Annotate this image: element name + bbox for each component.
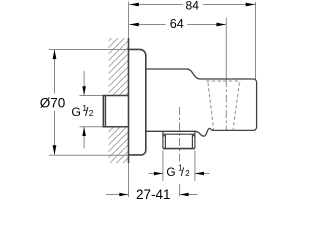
svg-text:2: 2: [185, 169, 190, 178]
extension line wall face (84/64 left, 27-41 left): [128, 2, 130, 198]
svg-text:G: G: [71, 105, 81, 119]
leader line G12 left top: [83, 71, 85, 96]
centerline holder axis: [225, 79, 227, 130]
extension line stub top: [80, 95, 104, 97]
svg-text:27-41: 27-41: [136, 187, 171, 200]
extension line dia70 top: [49, 49, 129, 51]
dimension tail G12 bottom left: [149, 173, 163, 175]
extension line 84 right: [255, 2, 257, 80]
dimension line dia70: [54, 50, 56, 94]
arrowhead G12 bottom right-pointing: [154, 172, 163, 176]
inlet stub clearing in wall: [102, 96, 129, 127]
arrowhead 27-41 right-pointing: [119, 193, 128, 197]
svg-text:G: G: [166, 165, 175, 179]
wall section hatch: [109, 38, 129, 163]
extension line stub bottom: [80, 126, 104, 128]
hidden cone right edge: [233, 83, 240, 130]
arrowhead dia70 down: [53, 145, 57, 155]
dimension line 64: [129, 24, 165, 26]
arrowhead G12 left up: [82, 127, 86, 136]
extension line G12 bottom left: [162, 151, 164, 182]
arrowhead G12 bottom left-pointing: [195, 172, 204, 176]
extension line outlet axis bottom: [179, 184, 181, 197]
leader line G12 left bottom: [83, 127, 85, 149]
svg-text:84: 84: [186, 0, 200, 12]
outlet nut: [163, 131, 195, 148]
svg-text:64: 64: [170, 17, 184, 31]
arrowhead 64 right: [216, 23, 226, 27]
dimension line 84: [129, 4, 183, 6]
arrowhead 84 left: [129, 3, 139, 7]
arrowhead 84 right: [246, 3, 256, 7]
hidden cone top edge: [206, 80, 241, 82]
arrowhead 64 left: [129, 23, 139, 27]
svg-text:Ø70: Ø70: [40, 96, 66, 111]
wall face edge: [128, 38, 130, 163]
svg-text:2: 2: [89, 108, 94, 118]
body outline: [146, 69, 257, 136]
arrowhead G12 left down: [82, 86, 86, 95]
arrowhead 27-41 left-pointing: [180, 193, 189, 197]
wall plate (escutcheon): [129, 49, 146, 154]
hidden holder cone (dashed): [206, 81, 241, 130]
hidden cone left edge: [208, 83, 214, 130]
extension line G12 bottom right: [194, 151, 196, 182]
dimension line 27-41: [106, 194, 128, 196]
extension line 64 right: [225, 18, 227, 80]
arrowhead dia70 up: [53, 50, 57, 60]
centerline outlet axis: [179, 107, 181, 162]
extension line dia70 bottom: [49, 154, 129, 156]
inlet stub G12: [103, 96, 128, 127]
dimension tail G12 bottom right: [195, 173, 210, 175]
outlet nut bottom edge: [164, 148, 195, 150]
